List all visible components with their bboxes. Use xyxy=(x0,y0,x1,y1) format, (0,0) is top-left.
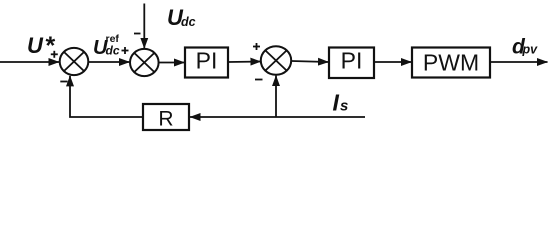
summing junction S2 xyxy=(130,49,159,76)
block R xyxy=(143,104,189,131)
svg-text:I: I xyxy=(333,90,340,116)
block PWM xyxy=(412,48,490,78)
svg-text:pv: pv xyxy=(522,43,539,57)
svg-text:R: R xyxy=(158,108,173,131)
summing junction S3 xyxy=(261,46,291,75)
sign minus at S3 xyxy=(255,79,263,81)
sign plus at S1 xyxy=(51,51,58,58)
wire PI2 to PWM xyxy=(374,61,412,63)
svg-text:dc: dc xyxy=(181,15,196,29)
svg-text:PWM: PWM xyxy=(423,50,479,76)
svg-text:PI: PI xyxy=(341,48,363,74)
wire feedback into R xyxy=(190,116,276,118)
block PI1 xyxy=(185,48,228,78)
summing junction S1 xyxy=(60,48,89,75)
wire junction up to S3 xyxy=(275,76,277,117)
wire S1 to S2 xyxy=(89,61,130,63)
wire Is input segment xyxy=(276,116,365,118)
sign minus at S2 xyxy=(134,33,141,35)
node Udc_ref label xyxy=(93,33,120,59)
svg-text:U: U xyxy=(27,33,44,58)
block PI2 xyxy=(329,48,374,79)
svg-text:dc: dc xyxy=(106,44,120,58)
wire S3 to PI2 xyxy=(292,61,329,62)
sign plus at S2 xyxy=(122,47,129,54)
sign plus at S3 xyxy=(253,43,260,50)
wire PI1 to S3 xyxy=(228,61,261,64)
wire S2 to PI1 xyxy=(159,62,185,64)
node Is label xyxy=(333,90,349,116)
wire input U* line xyxy=(0,61,59,63)
wire Udc input from top into S2 xyxy=(143,4,145,49)
sign minus at S1 xyxy=(60,81,67,83)
node dpv label xyxy=(512,36,538,59)
svg-text:s: s xyxy=(340,98,348,115)
wire R to left corner xyxy=(70,76,143,117)
svg-text:PI: PI xyxy=(196,48,218,74)
wire PWM output dpv xyxy=(490,61,548,63)
node Udc label xyxy=(167,5,196,30)
